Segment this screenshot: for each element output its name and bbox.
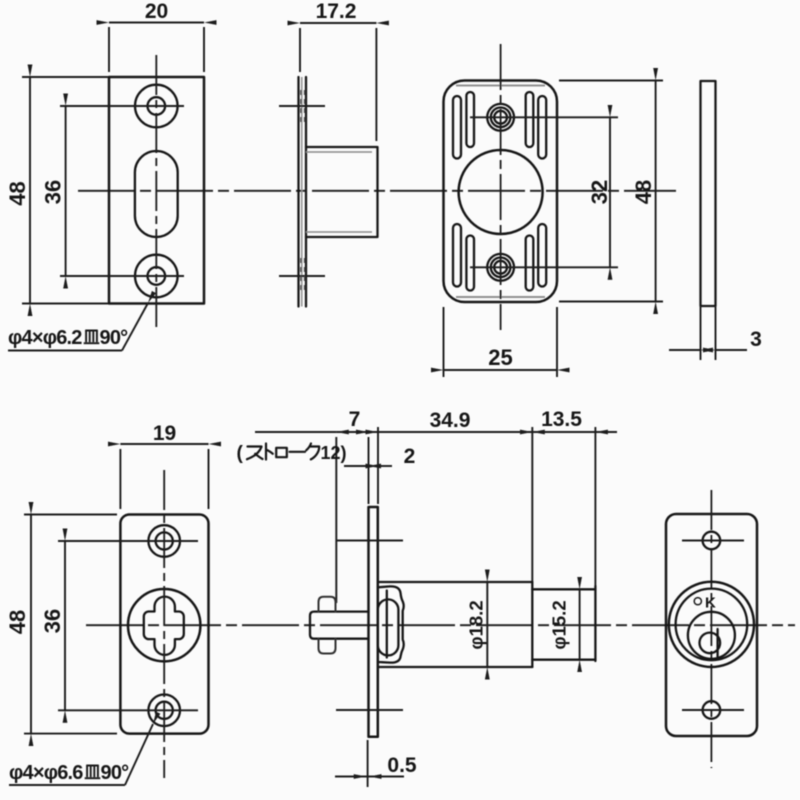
svg-text:7: 7 bbox=[349, 408, 361, 431]
svg-text:20: 20 bbox=[145, 0, 168, 23]
svg-text:17.2: 17.2 bbox=[316, 0, 357, 23]
svg-text:φ18.2: φ18.2 bbox=[466, 600, 487, 649]
svg-text:48: 48 bbox=[5, 610, 30, 634]
svg-text:36: 36 bbox=[40, 609, 65, 633]
svg-text:36: 36 bbox=[40, 180, 65, 204]
svg-text:3: 3 bbox=[750, 328, 762, 351]
svg-text:32: 32 bbox=[587, 180, 612, 204]
svg-text:34.9: 34.9 bbox=[430, 409, 471, 432]
svg-text:13.5: 13.5 bbox=[541, 408, 582, 431]
svg-text:φ15.2: φ15.2 bbox=[549, 600, 570, 649]
svg-text:(: ( bbox=[237, 443, 244, 464]
svg-text:48: 48 bbox=[5, 181, 30, 205]
svg-text:12): 12) bbox=[321, 443, 347, 463]
svg-text:φ4×φ6.2: φ4×φ6.2 bbox=[8, 327, 82, 349]
svg-text:0.5: 0.5 bbox=[387, 754, 417, 777]
svg-text:19: 19 bbox=[153, 422, 176, 445]
svg-text:25: 25 bbox=[488, 345, 512, 370]
svg-text:90°: 90° bbox=[100, 327, 129, 349]
svg-text:2: 2 bbox=[404, 445, 416, 468]
svg-text:φ4×φ6.6: φ4×φ6.6 bbox=[9, 762, 83, 784]
svg-text:90°: 90° bbox=[101, 762, 130, 784]
svg-text:K: K bbox=[705, 595, 716, 612]
svg-text:48: 48 bbox=[631, 180, 656, 204]
